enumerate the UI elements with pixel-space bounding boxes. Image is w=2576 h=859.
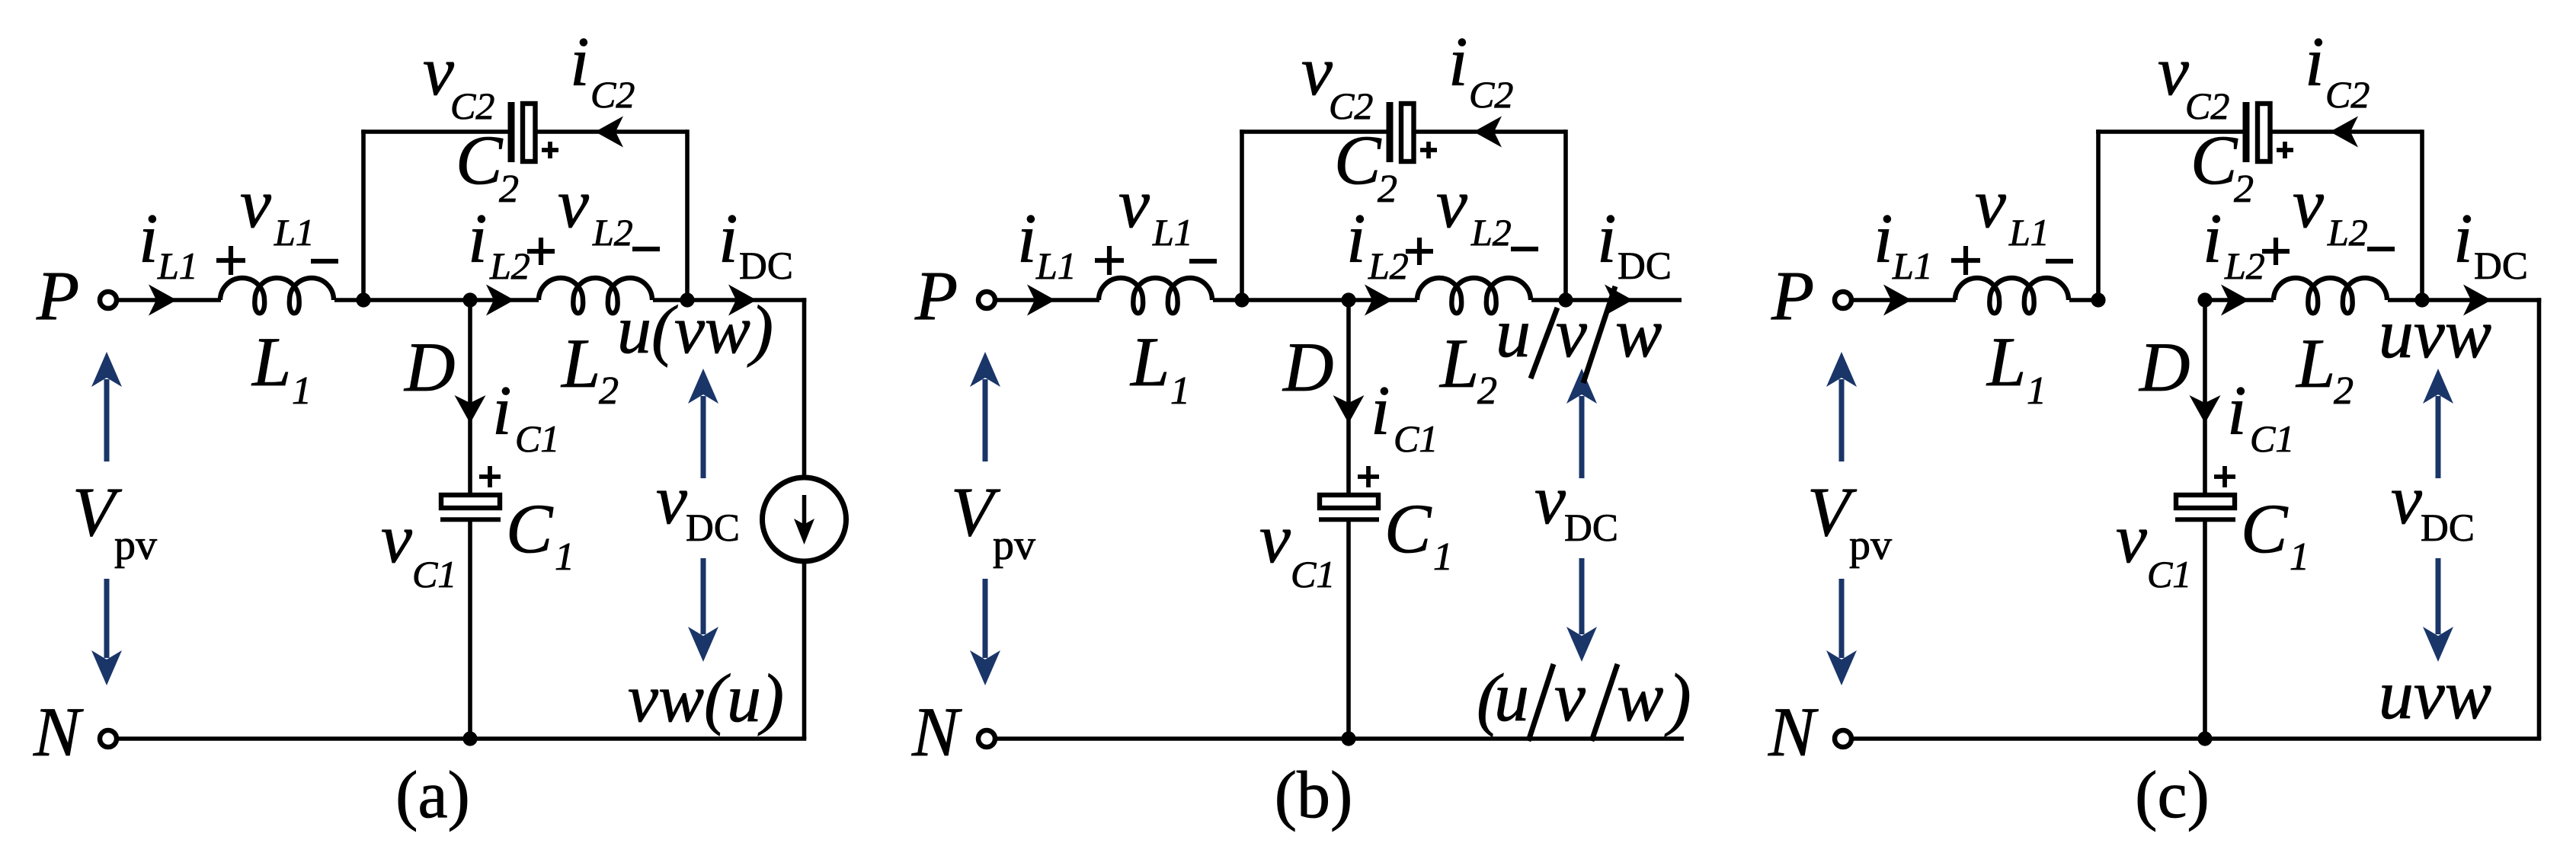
label i_DC (a) [718,200,793,288]
wire node B to L2 (c) [2205,298,2274,302]
label plus C2 (a) [542,142,558,158]
label plus C2 (c) [2277,142,2293,158]
label v_L2 (a) [558,164,633,254]
junction node B (a) [462,292,477,307]
svg-text:DC: DC [686,507,740,550]
wire node A to node B (a) [363,298,470,302]
svg-text:C2: C2 [450,85,494,127]
label plus C1 (c) [2214,466,2235,487]
label (u/v/w) (b) [1477,658,1691,741]
wire D branch upper (a) [468,300,472,495]
svg-text:L2: L2 [2327,211,2368,254]
wire D branch lower (a) [468,521,472,739]
wire right rail lower (a) [802,561,807,739]
label minus vL1 (c) [2046,259,2073,263]
junction node B (c) [2197,292,2212,307]
label plus vL1 (a) [216,246,245,275]
svg-text:DC: DC [2474,245,2528,288]
label i_L2 (c) [2203,200,2265,287]
label i_C2 (a) [570,23,635,116]
label C_2 (c) [2190,121,2254,211]
junction node A (a) [356,292,370,307]
wire node B to L2 (a) [470,298,539,302]
svg-text:L1: L1 [2008,211,2050,254]
label minus vL2 (a) [632,247,660,251]
arrow iL1 (c) [1883,285,1912,316]
label v_DC (a) [656,461,740,550]
svg-text:L: L [1129,323,1170,401]
svg-text:pv: pv [993,522,1035,569]
svg-text:C2: C2 [1469,73,1513,116]
wire D branch upper (b) [1346,300,1351,495]
svg-text:pv: pv [114,522,157,569]
svg-text:D: D [403,328,455,406]
svg-text:P: P [914,257,958,334]
junction node A (b) [1234,292,1249,307]
junction node D bottom (a) [462,731,477,746]
label plus vL2 (c) [2262,238,2290,265]
label C_1 (b) [1384,490,1453,579]
wire P to L1 (c) [1851,298,1956,302]
node N terminal (c) [1835,730,1851,747]
svg-text:C2: C2 [2185,85,2229,127]
inductor L1 (a) [220,278,334,313]
svg-text:2: 2 [1378,168,1397,211]
label C_2 (a) [456,121,519,211]
svg-text:C: C [506,490,554,567]
capacitor C1 (a) [440,495,501,519]
wire L1 to node A (a) [334,298,363,302]
arrow v_DC down (b) [1566,558,1597,662]
svg-text:C2: C2 [1329,85,1373,127]
arrow i_C2 (c) [2330,117,2358,148]
label v_L1 (a) [240,164,315,254]
svg-text:N: N [1768,693,1819,771]
wire C2 right leg (b) [1563,129,1568,300]
svg-text:L: L [251,323,291,401]
label L_2 (a) [560,324,619,413]
label minus vL1 (b) [1189,259,1217,263]
label L_1 (b) [1129,323,1190,413]
svg-text:C2: C2 [2325,73,2370,116]
label V_pv (a) [72,473,157,569]
node N terminal (b) [978,730,995,747]
svg-text:v: v [381,500,412,577]
label plus C2 (b) [1420,142,1437,158]
node N terminal (a) [100,730,117,747]
svg-text:L: L [560,324,600,402]
capacitor C2 (a) [511,102,536,162]
label V_pv (b) [951,473,1035,569]
inductor L2 (a) [539,278,652,313]
arrow v_DC down (c) [2423,558,2453,662]
svg-text:C: C [2241,490,2289,567]
svg-text:vw(u): vw(u) [628,661,784,736]
svg-text:i: i [492,372,512,449]
svg-text:): ) [1664,659,1691,737]
svg-text:C2: C2 [590,73,635,116]
svg-text:C1: C1 [2147,553,2191,596]
wire L1 to node A (c) [2069,298,2098,302]
arrow iL1 (b) [1027,285,1055,316]
svg-text:i: i [570,23,590,101]
capacitor C1 (c) [2175,495,2235,519]
inductor L2 (b) [1417,278,1531,313]
label C_2 (b) [1334,121,1397,211]
svg-text:v: v [2116,500,2147,577]
label i_L1 (b) [1017,200,1077,287]
svg-text:N: N [33,693,84,771]
svg-text:2: 2 [499,168,519,211]
label i_C2 (b) [1448,23,1513,116]
svg-text:1: 1 [555,535,574,579]
svg-text:i: i [2453,200,2473,277]
junction node A (c) [2091,292,2105,307]
wire L2 to node C (a) [653,298,687,302]
arrow D branch (c) [2190,395,2221,423]
arrow V_pv up (c) [1826,352,1857,461]
wire C2 top right (b) [1414,129,1566,134]
svg-text:L2: L2 [592,211,633,254]
svg-text:C1: C1 [515,417,559,460]
wire C2 top left (a) [361,129,509,134]
junction node B (b) [1341,292,1355,307]
svg-text:DC: DC [1564,507,1618,550]
junction node D bottom (b) [1341,731,1355,746]
arrow V_pv up (b) [970,352,1000,461]
label v_C2 (c) [2158,32,2229,127]
label i_C1 (c) [2227,372,2294,460]
svg-text:1: 1 [1170,369,1190,413]
svg-text:C: C [1334,121,1382,199]
label C_1 (c) [2241,490,2309,579]
svg-text:(b): (b) [1275,758,1353,832]
svg-text:i: i [718,200,738,277]
arrow iL2 (a) [486,285,514,316]
label i_DC (b) [1597,200,1672,288]
label u/v/w (b) [1496,286,1662,383]
current source arrow (a) [794,495,814,544]
arrow D branch (a) [455,395,486,423]
svg-text:v: v [1436,164,1467,242]
arrow iL2 (c) [2221,285,2249,316]
svg-text:u(vw): u(vw) [617,292,773,368]
svg-text:2: 2 [599,369,619,413]
svg-text:v: v [423,32,454,110]
svg-text:i: i [2203,200,2222,277]
svg-text:L: L [2295,324,2335,402]
svg-text:v: v [1975,164,2006,242]
label v_L1 (b) [1118,164,1193,254]
svg-text:v: v [1118,164,1150,242]
svg-text:C1: C1 [1394,417,1438,460]
label V_pv (c) [1807,473,1892,569]
svg-text:i: i [1017,200,1037,277]
label C_1 (a) [506,490,574,579]
capacitor C1 (b) [1319,495,1379,519]
wire bottom N to rail (a) [117,736,806,741]
svg-text:2: 2 [1477,369,1497,413]
svg-text:C1: C1 [2250,417,2294,460]
arrow i_DC (a) [728,285,757,316]
svg-text:1: 1 [292,369,312,413]
svg-text:D: D [1282,328,1333,406]
arrow v_DC up (a) [688,369,718,478]
label minus vL2 (b) [1511,247,1538,251]
wire node C to open end (b) [1566,298,1682,302]
svg-text:L1: L1 [1892,244,1933,287]
wire right rail upper (a) [802,298,807,477]
wire P to L1 (b) [995,298,1099,302]
svg-text:N: N [911,693,962,771]
svg-text:DC: DC [2421,507,2475,550]
label L_2 (b) [1438,324,1497,413]
svg-text:P: P [36,257,79,334]
wire node A to node B (b) [1242,298,1349,302]
label L_2 (c) [2295,324,2354,413]
wire C2 top right (a) [536,129,688,134]
svg-text:i: i [1597,200,1617,277]
label plus vL1 (c) [1951,246,1980,275]
label v_L2 (c) [2293,164,2368,254]
arrow V_pv down (c) [1826,579,1857,685]
wire L2 to node C (b) [1531,298,1566,302]
svg-text:L2: L2 [1470,211,1512,254]
arrow iL1 (a) [149,285,177,316]
label i_C1 (a) [492,372,559,460]
wire node B to L2 (b) [1349,298,1417,302]
svg-text:v: v [2391,461,2422,538]
label v_C1 (c) [2116,500,2191,596]
wire right rail (c) [2537,298,2542,739]
wire C2 left leg (a) [361,129,366,300]
label i_L1 (a) [139,200,198,287]
wire node C to corner (c) [2422,298,2541,302]
svg-text:L2: L2 [2224,244,2265,287]
svg-text:C1: C1 [412,553,456,596]
svg-text:(c): (c) [2135,758,2210,832]
junction node C (a) [680,292,694,307]
svg-text:i: i [2305,23,2325,101]
wire D branch upper (c) [2203,300,2207,495]
arrow v_DC down (a) [688,558,718,662]
svg-text:i: i [468,200,488,277]
wire C2 top left (c) [2096,129,2244,134]
label i_L2 (b) [1346,200,1409,287]
svg-text:v: v [558,164,589,242]
capacitor C2 (b) [1390,102,1414,162]
arrow v_DC up (c) [2423,369,2453,478]
wire C2 left leg (b) [1240,129,1244,300]
arrow v_DC up (b) [1566,369,1597,478]
svg-text:DC: DC [1618,245,1672,288]
label v_DC (c) [2391,461,2475,550]
junction node C (b) [1558,292,1573,307]
wire D branch lower (c) [2203,521,2207,739]
svg-text:(a): (a) [395,758,470,832]
svg-text:C: C [2190,121,2238,199]
svg-text:L1: L1 [157,244,198,287]
svg-text:2: 2 [2334,369,2354,413]
svg-text:1: 1 [2027,369,2046,413]
junction node D bottom (c) [2197,731,2212,746]
label plus vL2 (a) [527,238,555,265]
node P terminal (c) [1835,292,1851,308]
svg-text:2: 2 [2234,168,2254,211]
label plus vL1 (b) [1095,246,1124,275]
svg-text:uvw: uvw [2379,295,2491,372]
svg-text:v: v [2158,32,2189,110]
svg-text:1: 1 [2290,535,2309,579]
wire D branch lower (b) [1346,521,1351,739]
svg-text:v: v [1556,294,1587,372]
svg-text:uvw: uvw [2379,656,2491,733]
svg-text:i: i [1371,372,1390,449]
junction node C (c) [2414,292,2429,307]
label L_1 (c) [1986,323,2046,413]
wire bottom N to open end (b) [995,736,1684,741]
svg-text:D: D [2138,328,2190,406]
svg-text:i: i [1448,23,1468,101]
label i_L1 (c) [1874,200,1933,287]
svg-text:u: u [1494,658,1529,736]
label v_L1 (c) [1975,164,2050,254]
arrow i_C2 (a) [595,117,623,148]
wire L1 to node A (b) [1213,298,1242,302]
label i_C2 (c) [2305,23,2370,116]
wire L2 to node C (c) [2388,298,2422,302]
label minus vL2 (c) [2367,247,2395,251]
svg-text:pv: pv [1849,522,1892,569]
label plus C1 (a) [479,466,501,487]
svg-text:v: v [2293,164,2324,242]
svg-text:v: v [656,461,687,538]
wire P to L1 (a) [117,298,221,302]
wire bottom N to rail (c) [1851,736,2541,741]
svg-text:u: u [1496,294,1531,372]
svg-text:i: i [1874,200,1893,277]
svg-text:C1: C1 [1291,553,1335,596]
label v_C1 (b) [1259,500,1335,596]
svg-text:1: 1 [1433,535,1453,579]
svg-text:v: v [1301,32,1333,110]
wire C2 top right (c) [2270,129,2423,134]
label v_L2 (b) [1436,164,1512,254]
arrow D branch (b) [1333,395,1365,423]
svg-text:i: i [139,200,158,277]
svg-text:L2: L2 [489,244,530,287]
arrow iL2 (b) [1365,285,1393,316]
capacitor C2 (c) [2246,102,2270,162]
wire C2 right leg (c) [2420,129,2424,300]
label v_C1 (a) [381,500,456,596]
svg-text:v: v [240,164,271,242]
svg-text:DC: DC [739,245,793,288]
inductor L2 (c) [2274,278,2387,313]
svg-text:L2: L2 [1368,244,1409,287]
svg-text:L: L [1438,324,1479,402]
arrow i_DC (b) [1605,285,1633,316]
wire node C to corner (a) [687,298,806,302]
wire C2 left leg (c) [2096,129,2101,300]
label i_C1 (b) [1371,372,1438,460]
svg-text:C: C [456,121,504,199]
label v_DC (b) [1534,461,1618,550]
arrow V_pv down (b) [970,579,1000,685]
node P terminal (b) [978,292,995,308]
arrow V_pv down (a) [91,579,122,685]
label L_1 (a) [251,323,312,413]
arrow V_pv up (a) [91,352,122,461]
inductor L1 (c) [1955,278,2069,313]
label plus vL2 (b) [1406,238,1433,265]
svg-text:v: v [1534,461,1566,538]
label i_L2 (a) [468,200,530,287]
svg-text:C: C [1384,490,1432,567]
svg-text:v: v [1554,658,1586,736]
svg-text:i: i [1346,200,1366,277]
current source circle (a) [763,477,846,561]
svg-text:L1: L1 [1035,244,1077,287]
svg-text:v: v [1259,500,1291,577]
inductor L1 (b) [1099,278,1212,313]
label i_DC (c) [2453,200,2528,288]
arrow i_DC (c) [2463,285,2491,316]
label minus vL1 (a) [311,259,338,263]
label v_C2 (b) [1301,32,1373,127]
label v_C2 (a) [423,32,494,127]
node P terminal (a) [100,292,117,308]
svg-text:i: i [2227,372,2247,449]
svg-text:L: L [1986,323,2026,401]
svg-text:w: w [1615,294,1662,372]
svg-text:w: w [1617,658,1663,736]
arrow i_C2 (b) [1474,117,1502,148]
svg-text:L1: L1 [1152,211,1193,254]
wire C2 right leg (a) [685,129,690,300]
wire C2 top left (b) [1240,129,1387,134]
svg-text:L1: L1 [274,211,315,254]
label plus C1 (b) [1358,466,1379,487]
svg-text:P: P [1771,257,1814,334]
